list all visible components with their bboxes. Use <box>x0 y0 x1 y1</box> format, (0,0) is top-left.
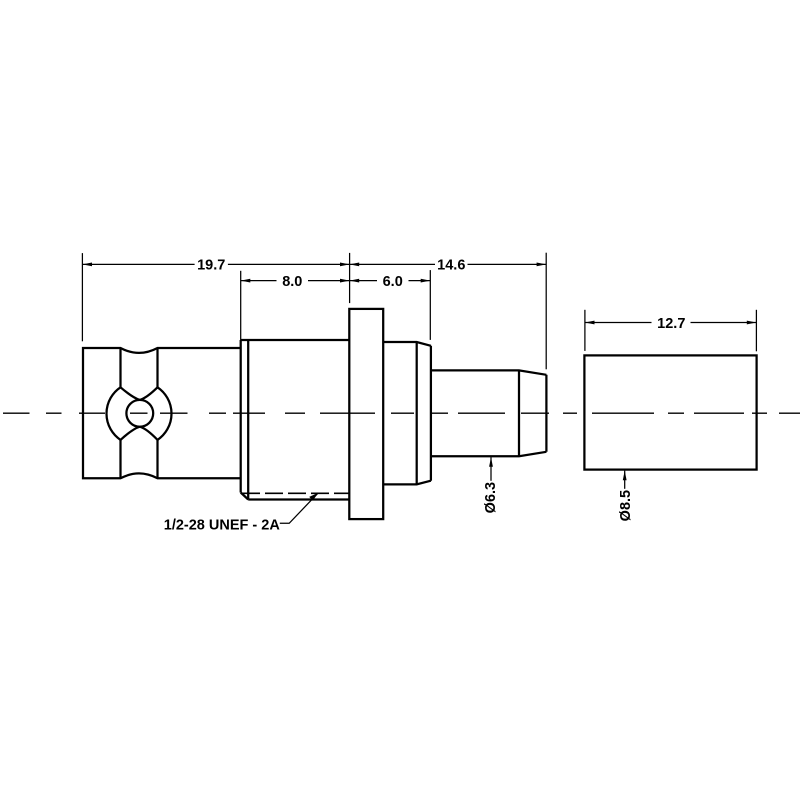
flange rectangle <box>349 309 383 519</box>
extension line at flange left face <box>349 253 351 303</box>
arrow 6.0 right <box>421 279 431 283</box>
dia 6.3 arrow stem <box>490 457 492 481</box>
thread start chamfer <box>241 493 249 500</box>
svg-text:19.7: 19.7 <box>197 258 225 274</box>
bayonet wing inner arc right-bottom <box>140 427 158 440</box>
arrow dia 8.5 (up) <box>623 471 627 481</box>
arrow 14.6 right <box>537 263 547 267</box>
dimension line 19.7 <box>82 263 194 265</box>
thread section front face vertical <box>240 340 242 493</box>
dia 8.5 arrow stem <box>624 471 626 489</box>
bayonet wing outer arc right <box>158 387 172 440</box>
arrow dia 6.3 (up) <box>489 457 493 467</box>
dimension line 14.6 <box>350 263 435 265</box>
extension line left of nut <box>81 253 83 341</box>
arrow 12.7 right <box>747 321 757 325</box>
svg-text:Ø8.5: Ø8.5 <box>618 490 634 521</box>
arrow 8.0 right / 6.0 left pair <box>340 279 350 283</box>
thread section bottom line <box>248 498 349 500</box>
ferrule tip face <box>545 375 547 452</box>
arrow 8.0 left <box>241 279 251 283</box>
bayonet pin circle <box>126 400 153 427</box>
extension line sleeve left <box>584 310 586 351</box>
crimp ferrule bottom line with nose cone <box>431 452 547 456</box>
dimension line 12.7 <box>585 322 652 324</box>
extension line at body right face <box>429 270 431 340</box>
crimp sleeve rectangle <box>584 355 756 469</box>
thread dashed line (minor dia) <box>242 492 349 494</box>
thread runout vertical <box>247 340 249 500</box>
svg-text:8.0: 8.0 <box>282 274 302 290</box>
dimension line 6.0 <box>350 280 377 282</box>
bayonet slot right vertical (bottom) <box>156 440 158 478</box>
body cylinder/chamfer edge vertical <box>416 342 418 484</box>
bayonet slot left vertical (top) <box>119 348 121 387</box>
extension line at nut right face <box>240 271 242 341</box>
dimension line 8.0 <box>241 280 277 282</box>
arrow 19.7 left <box>82 263 92 267</box>
centerline (horizontal axis) <box>3 412 800 414</box>
svg-text:1/2-28 UNEF - 2A: 1/2-28 UNEF - 2A <box>164 518 281 534</box>
arrow 19.7 right / 14.6 left pair at flange <box>340 263 350 267</box>
ferrule cylinder/cone edge vertical <box>518 370 520 456</box>
bayonet slot left vertical (bottom) <box>119 440 121 478</box>
arrow 12.7 left <box>585 321 595 325</box>
coupling nut outline <box>83 348 241 478</box>
body section bottom line (right of flange) <box>383 481 431 485</box>
extension line at ferrule tip <box>545 253 547 370</box>
bayonet wing inner arc left-top <box>121 387 140 400</box>
svg-text:14.6: 14.6 <box>437 258 465 274</box>
svg-text:6.0: 6.0 <box>383 274 403 290</box>
thread section top line <box>241 339 350 341</box>
svg-text:12.7: 12.7 <box>657 316 685 332</box>
bayonet wing outer arc left <box>106 387 120 440</box>
bayonet wing inner arc left-bottom <box>121 427 140 440</box>
body right face vertical <box>430 346 432 481</box>
crimp ferrule top line with nose cone <box>431 370 547 374</box>
svg-text:Ø6.3: Ø6.3 <box>483 482 499 513</box>
bayonet slot right vertical (top) <box>156 348 158 387</box>
thread callout leader <box>280 493 319 524</box>
bayonet wing inner arc right-top <box>140 387 158 400</box>
leader arrowhead <box>309 493 318 501</box>
body section top line (right of flange) <box>383 342 431 346</box>
extension line sleeve right <box>755 310 757 352</box>
